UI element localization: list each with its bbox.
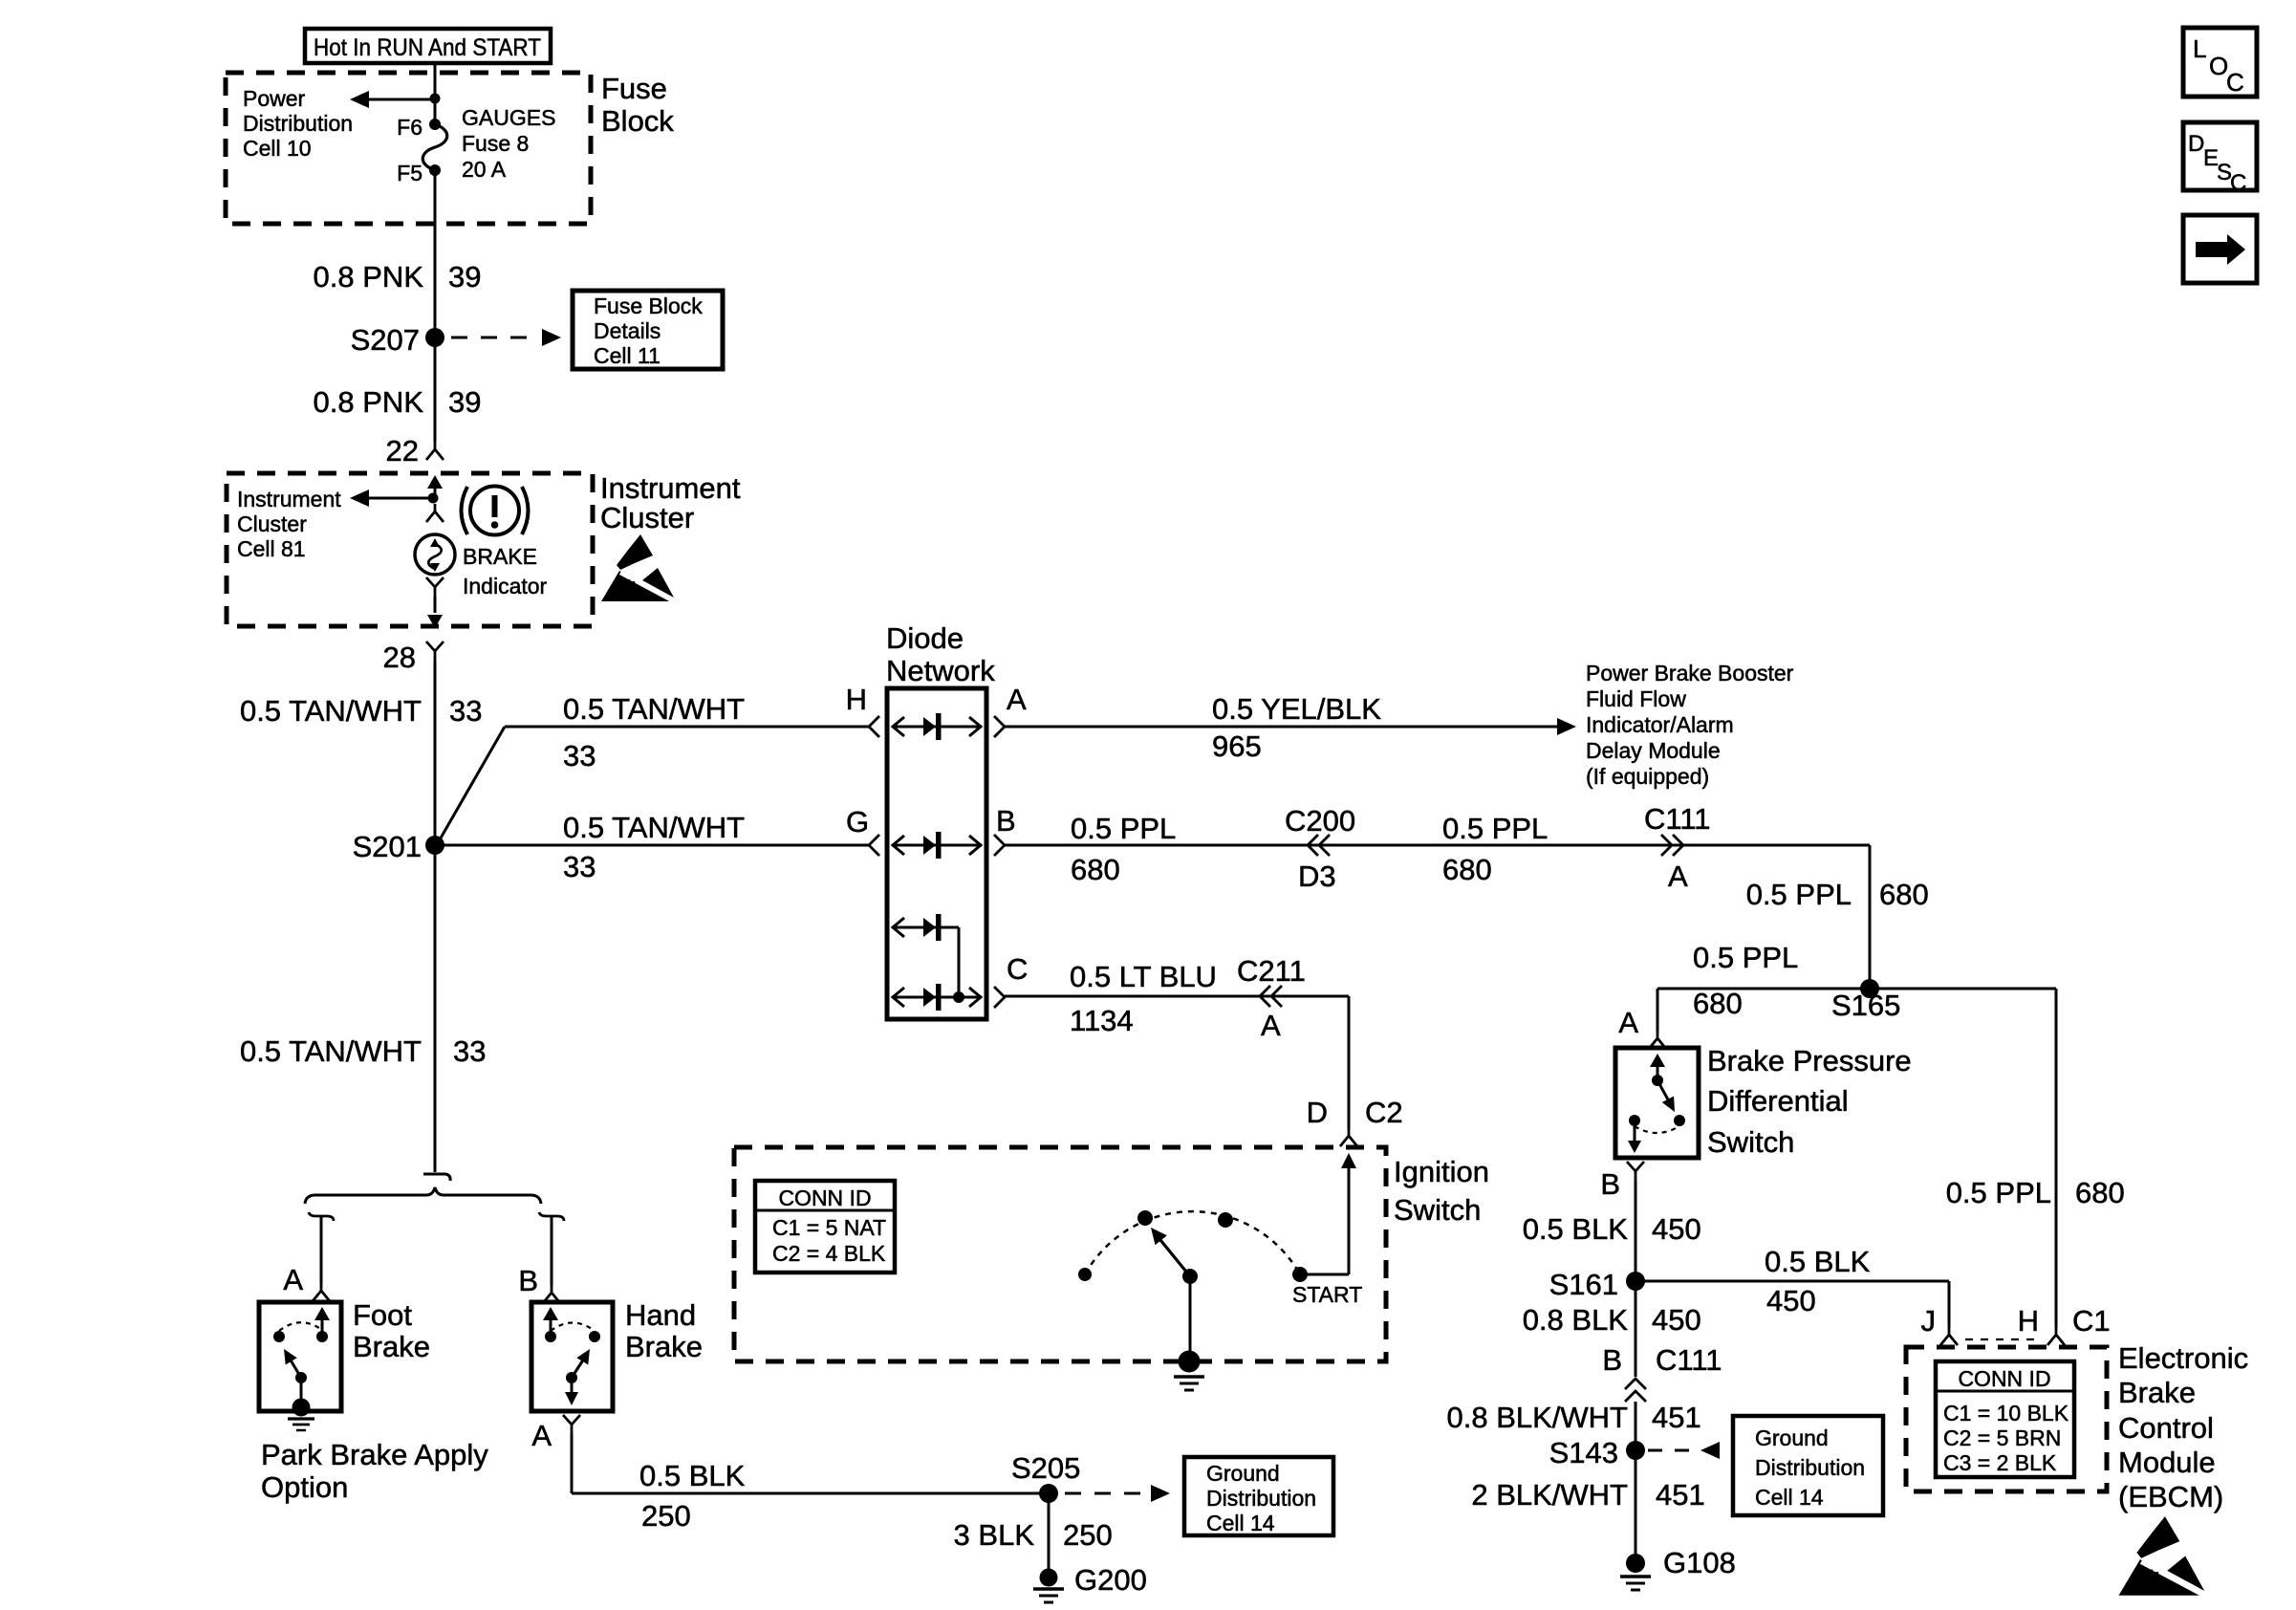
BRAKE indicator lamp (415, 534, 455, 575)
instrument cluster dashed outline (227, 473, 593, 626)
svg-text:C2 = 4 BLK: C2 = 4 BLK (772, 1241, 886, 1266)
svg-text:G: G (846, 805, 869, 838)
LOC legend box (2183, 28, 2257, 97)
svg-text:Brake: Brake (353, 1330, 430, 1363)
dashed reference arrow to Fuse Block Details (451, 329, 561, 346)
label Instrument Cluster Cell 81 (237, 487, 341, 561)
connector C111 pin A (1644, 802, 1711, 893)
connector below cluster, terminal 28 (383, 641, 444, 674)
pin G (846, 805, 879, 856)
svg-text:C1: C1 (2072, 1304, 2111, 1338)
svg-text:A: A (1618, 1006, 1638, 1039)
svg-text:CONN ID: CONN ID (778, 1186, 871, 1210)
wire hand brake to S205 (572, 1434, 1049, 1493)
svg-text:Indicator/Alarm: Indicator/Alarm (1586, 712, 1734, 737)
Hot In RUN And START title box (305, 29, 551, 63)
svg-text:965: 965 (1212, 729, 1262, 763)
svg-text:Park Brake Apply: Park Brake Apply (261, 1438, 488, 1471)
svg-text:Module: Module (2118, 1446, 2216, 1479)
svg-text:D: D (1307, 1096, 1328, 1129)
wire label 0.5 PPL 680 (1071, 812, 1176, 886)
svg-text:680: 680 (1071, 853, 1120, 886)
connector pin J (1921, 1304, 1959, 1345)
svg-text:Distribution: Distribution (243, 111, 353, 136)
svg-text:Ground: Ground (1755, 1425, 1829, 1450)
dashed connector face between J and H (1965, 1338, 2042, 1340)
svg-text:0.5 TAN/WHT: 0.5 TAN/WHT (563, 692, 745, 726)
pressure switch contacts (1628, 1054, 1685, 1153)
splice S143 (1549, 1436, 1645, 1469)
svg-text:GAUGES: GAUGES (462, 105, 555, 130)
svg-text:L: L (2193, 34, 2206, 63)
svg-text:450: 450 (1652, 1303, 1701, 1337)
svg-text:Delay Module: Delay Module (1586, 738, 1721, 763)
diode D1 row (892, 713, 982, 740)
wire label 0.8 BLK/WHT 451 (1447, 1401, 1701, 1434)
wire START up to pin D (1300, 1153, 1356, 1274)
up arrow into cluster (427, 475, 443, 498)
wire S161 to EBCM pin J (1635, 1281, 1949, 1327)
node: feed junction (430, 94, 441, 104)
wire label 0.8 BLK 450 (1523, 1303, 1701, 1337)
label Ignition Switch (1394, 1155, 1489, 1227)
svg-text:Cell 10: Cell 10 (243, 136, 312, 161)
wire label 0.5 LT BLU 1134 (1070, 960, 1217, 1037)
wire label 0.5 PPL 680 (4) (1693, 941, 1798, 1020)
svg-text:Hand: Hand (625, 1298, 696, 1332)
svg-text:A: A (283, 1263, 303, 1296)
svg-text:Cell 14: Cell 14 (1755, 1485, 1824, 1510)
ignition ground (1174, 1351, 1204, 1391)
svg-text:451: 451 (1652, 1401, 1701, 1434)
svg-text:A: A (1668, 859, 1688, 893)
svg-text:0.5 TAN/WHT: 0.5 TAN/WHT (563, 811, 745, 844)
svg-text:B: B (1600, 1167, 1620, 1201)
ESD symbol (EBCM) (2119, 1516, 2207, 1597)
diode D4 row (892, 984, 982, 1011)
svg-text:F6: F6 (397, 115, 422, 140)
svg-text:F5: F5 (397, 161, 422, 185)
hand brake switch box (531, 1302, 613, 1411)
svg-text:0.5 PPL: 0.5 PPL (1693, 941, 1798, 974)
svg-text:0.5 PPL: 0.5 PPL (1442, 812, 1548, 845)
wire S165 to EBCM pin H (1870, 989, 2056, 1327)
ESD symbol (instrument cluster) (601, 534, 676, 602)
arrow to Instrument Cluster Cell 81 (350, 490, 433, 507)
label Power Distribution Cell 10 (243, 86, 353, 161)
splice S201 (353, 830, 444, 863)
wire S161 down (1635, 1281, 1637, 1377)
CONN ID table (ignition) (755, 1181, 895, 1273)
svg-text:33: 33 (453, 1034, 486, 1068)
svg-text:Power Brake Booster: Power Brake Booster (1586, 661, 1794, 685)
svg-text:Brake Pressure: Brake Pressure (1707, 1044, 1912, 1077)
ignition rotary contact arc (1085, 1211, 1300, 1274)
svg-text:Instrument: Instrument (600, 471, 741, 505)
svg-text:680: 680 (1879, 878, 1929, 911)
svg-text:A: A (1007, 683, 1027, 716)
wire junction to F6 (434, 98, 437, 124)
svg-text:BRAKE: BRAKE (463, 544, 537, 569)
svg-text:Switch: Switch (1707, 1125, 1794, 1159)
wire to S161 (1635, 1181, 1637, 1281)
arrow legend box (2183, 215, 2257, 283)
svg-text:G200: G200 (1074, 1563, 1147, 1597)
svg-text:22: 22 (386, 434, 419, 468)
right branch wire (551, 1217, 553, 1285)
svg-text:H: H (2018, 1304, 2039, 1338)
svg-text:G108: G108 (1663, 1546, 1736, 1579)
svg-text:Cluster: Cluster (600, 501, 694, 534)
splice S207 (351, 323, 444, 357)
hand brake switch (543, 1307, 600, 1405)
svg-text:Option: Option (261, 1470, 348, 1504)
contact dots (1078, 1210, 1308, 1282)
svg-text:D3: D3 (1298, 859, 1336, 893)
svg-text:0.5 PPL: 0.5 PPL (1071, 812, 1176, 845)
wire label 0.5 PPL 680 (5) (1946, 1176, 2125, 1209)
svg-text:0.5 TAN/WHT: 0.5 TAN/WHT (240, 1034, 422, 1068)
wire down to S201 (434, 661, 437, 845)
svg-text:C: C (2226, 68, 2244, 97)
CONN ID table (EBCM) (1936, 1361, 2074, 1477)
wire S165 to pressure switch (1657, 988, 1870, 990)
connector pin D C2 into ignition switch (1307, 1096, 1403, 1146)
svg-text:0.5 LT BLU: 0.5 LT BLU (1070, 960, 1217, 993)
svg-text:1134: 1134 (1070, 1004, 1134, 1037)
fuse F8 GAUGES 20A (squiggle) (422, 124, 447, 170)
wire from hot feed into fuse block (434, 63, 437, 99)
connector pin A foot brake (283, 1263, 330, 1301)
svg-text:Fuse Block: Fuse Block (594, 294, 703, 318)
svg-text:J: J (1921, 1304, 1937, 1338)
wire label 0.5 TAN/WHT 33 (H branch) (563, 692, 745, 772)
svg-text:Indicator: Indicator (463, 574, 548, 598)
Ground Distribution Cell 14 reference box (2) (1733, 1416, 1883, 1515)
wire A to delay module (1005, 718, 1576, 735)
svg-text:680: 680 (2075, 1176, 2125, 1209)
svg-text:Block: Block (601, 104, 674, 138)
svg-text:CONN ID: CONN ID (1958, 1366, 2050, 1391)
wire label 0.5 BLK 250 (639, 1459, 746, 1533)
wire label 0.5 PPL 680 (2) (1442, 812, 1548, 886)
svg-text:A: A (531, 1419, 552, 1452)
DESC legend box (2183, 122, 2257, 196)
Fuse Block Details Cell 11 reference box (573, 291, 723, 369)
wire label 0.5 TAN/WHT 33 (G branch) (563, 811, 745, 883)
pin C (994, 952, 1028, 1008)
pin A (994, 683, 1027, 737)
pin B (994, 804, 1016, 856)
splice S165 (1831, 979, 1900, 1022)
wire down to S165 (1869, 845, 1872, 989)
wire label 0.5 TAN/WHT 33 (3) (240, 1034, 487, 1068)
svg-text:Network: Network (886, 654, 995, 687)
svg-text:680: 680 (1442, 853, 1492, 886)
connector into indicator (426, 504, 444, 522)
splice S205 (1011, 1451, 1080, 1503)
label Fuse Block (601, 72, 674, 138)
svg-text:C3 = 2 BLK: C3 = 2 BLK (1943, 1450, 2057, 1475)
connector pin H C1 (2018, 1304, 2111, 1345)
svg-text:Fluid Flow: Fluid Flow (1586, 686, 1686, 711)
wire label 0.5 YEL/BLK 965 (1212, 692, 1381, 763)
svg-text:Diode: Diode (886, 621, 964, 655)
svg-text:680: 680 (1693, 987, 1743, 1020)
svg-text:Ignition: Ignition (1394, 1155, 1489, 1188)
right branch curl (539, 1212, 564, 1221)
label Diode Network (886, 621, 995, 687)
split brace (305, 1187, 541, 1204)
connector C200 pin D3 (1285, 804, 1355, 893)
splice S161 (1549, 1268, 1645, 1301)
label BRAKE Indicator (463, 544, 548, 598)
EBCM dashed outline (1906, 1347, 2107, 1491)
wire label 0.8 PNK 39 (314, 260, 482, 294)
pin F5 (397, 161, 441, 185)
foot brake switch (273, 1307, 330, 1403)
svg-text:0.5 TAN/WHT: 0.5 TAN/WHT (240, 694, 422, 728)
wire label 0.5 TAN/WHT 33 (240, 694, 483, 728)
connector pin A below hand brake (531, 1415, 580, 1452)
svg-text:Instrument: Instrument (237, 487, 341, 511)
wire F5 down to S207 (434, 170, 437, 337)
svg-text:33: 33 (563, 739, 596, 772)
svg-text:(If equipped): (If equipped) (1586, 764, 1709, 789)
svg-text:Electronic: Electronic (2118, 1341, 2248, 1375)
wire split end (423, 1174, 450, 1181)
svg-text:Brake: Brake (2118, 1376, 2196, 1409)
connector C211 pin A (1237, 954, 1306, 1042)
svg-text:Fuse 8: Fuse 8 (462, 131, 529, 156)
wire corner down to pin A (1657, 989, 1659, 1031)
svg-text:450: 450 (1766, 1284, 1816, 1317)
svg-text:(EBCM): (EBCM) (2118, 1480, 2223, 1513)
foot brake ground (park brake apply) (288, 1399, 314, 1431)
label Hand Brake (625, 1298, 703, 1363)
diode D3 row (892, 914, 959, 997)
svg-text:START: START (1292, 1282, 1362, 1307)
svg-text:C1 = 10 BLK: C1 = 10 BLK (1943, 1401, 2069, 1425)
wire S207 down to instrument cluster (434, 337, 437, 442)
svg-text:C2: C2 (1365, 1096, 1403, 1129)
svg-text:39: 39 (448, 260, 481, 294)
svg-text:S143: S143 (1549, 1436, 1618, 1469)
wire S205 to G200 (1048, 1493, 1051, 1570)
svg-text:450: 450 (1652, 1212, 1701, 1246)
connector pin B below pressure switch (1600, 1162, 1644, 1201)
svg-text:20 A: 20 A (462, 157, 507, 182)
wire to diode pin H (505, 726, 869, 729)
svg-text:33: 33 (449, 694, 482, 728)
svg-text:451: 451 (1656, 1478, 1705, 1512)
svg-text:Foot: Foot (353, 1298, 412, 1332)
node: cluster feed junction (428, 493, 439, 504)
label Electronic Brake Control Module (EBCM) (2118, 1341, 2248, 1513)
svg-text:0.5 YEL/BLK: 0.5 YEL/BLK (1212, 692, 1381, 726)
svg-text:C200: C200 (1285, 804, 1355, 838)
down arrow leaving cluster (427, 597, 443, 628)
svg-text:B: B (996, 804, 1016, 838)
svg-text:3 BLK: 3 BLK (954, 1518, 1035, 1552)
svg-text:0.5 BLK: 0.5 BLK (1765, 1245, 1871, 1278)
svg-text:39: 39 (448, 385, 481, 419)
svg-text:250: 250 (641, 1499, 691, 1533)
ground G108 (1620, 1546, 1736, 1590)
brake warning symbol ((!)) (462, 487, 529, 535)
svg-text:Switch: Switch (1394, 1193, 1481, 1227)
label Brake Pressure Differential Switch (1707, 1044, 1912, 1159)
svg-text:28: 28 (383, 641, 416, 674)
svg-text:C111: C111 (1656, 1343, 1722, 1377)
ground G200 (1033, 1563, 1147, 1602)
left branch wire (320, 1217, 323, 1283)
svg-text:C: C (2230, 170, 2246, 196)
svg-text:2 BLK/WHT: 2 BLK/WHT (1471, 1478, 1628, 1512)
pin H (846, 683, 879, 737)
wire to S143 (1635, 1402, 1637, 1450)
connector pin B hand brake (518, 1264, 560, 1303)
svg-text:0.5 PPL: 0.5 PPL (1746, 878, 1852, 911)
svg-text:Details: Details (594, 318, 661, 343)
svg-text:0.8 PNK: 0.8 PNK (314, 260, 424, 294)
left branch curl (309, 1212, 334, 1221)
diode D2 row (892, 832, 982, 859)
wire label 0.5 PPL 680 (3) (1746, 878, 1929, 911)
wire label 2 BLK/WHT 451 (1471, 1478, 1704, 1512)
label Power Brake Booster module (1586, 661, 1794, 789)
branch wire up to diode row H (435, 727, 505, 848)
svg-text:S205: S205 (1011, 1451, 1080, 1485)
svg-text:250: 250 (1063, 1518, 1113, 1552)
label Instrument Cluster (600, 471, 741, 534)
wire label 3 BLK 250 (954, 1518, 1113, 1552)
foot brake switch box (259, 1302, 341, 1411)
svg-text:H: H (846, 683, 867, 716)
diode network box (887, 688, 986, 1019)
label Park Brake Apply Option (261, 1438, 488, 1504)
wire B to C111 (1005, 844, 1870, 847)
svg-text:C111: C111 (1644, 802, 1711, 836)
dashed reference arrow to Ground Distribution (1065, 1485, 1170, 1502)
svg-text:Brake: Brake (625, 1330, 703, 1363)
svg-text:0.8 BLK/WHT: 0.8 BLK/WHT (1447, 1401, 1629, 1434)
wire S143 to G108 (1635, 1450, 1637, 1556)
wire label 0.5 BLK 450 (1523, 1212, 1701, 1246)
svg-text:C211: C211 (1237, 954, 1306, 988)
label GAUGES Fuse 8 20 A (462, 105, 555, 182)
svg-text:0.8 PNK: 0.8 PNK (314, 385, 424, 419)
svg-text:C1 = 5 NAT: C1 = 5 NAT (772, 1215, 886, 1240)
connector C111 pin B (inline) (1602, 1343, 1722, 1402)
svg-text:33: 33 (563, 850, 596, 883)
svg-text:Cell 14: Cell 14 (1206, 1511, 1275, 1535)
svg-text:0.5 BLK: 0.5 BLK (1523, 1212, 1629, 1246)
svg-text:Ground: Ground (1206, 1461, 1280, 1486)
svg-text:Distribution: Distribution (1206, 1486, 1316, 1511)
svg-text:B: B (1602, 1343, 1622, 1377)
wire S201 down to park brake split (434, 845, 437, 1172)
svg-text:C: C (1007, 952, 1028, 986)
svg-text:Cluster: Cluster (237, 511, 307, 536)
svg-text:S161: S161 (1549, 1268, 1618, 1301)
brake pressure differential switch box (1615, 1048, 1699, 1158)
svg-text:Differential: Differential (1707, 1084, 1849, 1118)
Ground Distribution Cell 14 reference box (1184, 1457, 1333, 1535)
rotor to ground (1189, 1276, 1192, 1358)
pin F6 (397, 115, 441, 140)
wire C to C211 and ignition switch (1005, 996, 1349, 1128)
svg-text:Power: Power (243, 86, 306, 111)
arrow to Power Distribution (350, 91, 435, 108)
wire label 0.5 BLK 450 (2) (1765, 1245, 1871, 1317)
wire to diode pin G (435, 844, 869, 847)
svg-text:S165: S165 (1831, 989, 1900, 1022)
rotor arm (1151, 1228, 1198, 1284)
svg-text:A: A (1261, 1009, 1281, 1042)
svg-text:Hot In RUN And START: Hot In RUN And START (314, 34, 541, 61)
label Foot Brake (353, 1298, 430, 1363)
fuse block dashed outline (226, 73, 591, 224)
svg-text:B: B (518, 1264, 538, 1297)
svg-text:Cell 11: Cell 11 (594, 343, 661, 368)
svg-text:0.5 PPL: 0.5 PPL (1946, 1176, 2051, 1209)
wire label 0.8 PNK 39 (2) (314, 385, 482, 419)
svg-text:D: D (2188, 131, 2204, 157)
dashed reference arrow to Ground Distribution (S143) (1648, 1442, 1720, 1459)
svg-text:Distribution: Distribution (1755, 1455, 1865, 1480)
svg-text:0.8 BLK: 0.8 BLK (1523, 1303, 1629, 1337)
connector below indicator (426, 577, 444, 597)
ignition switch dashed outline (734, 1147, 1386, 1361)
svg-text:Fuse: Fuse (601, 72, 667, 105)
svg-text:Cell 81: Cell 81 (237, 536, 306, 561)
svg-text:C2 = 5 BRN: C2 = 5 BRN (1943, 1425, 2061, 1450)
terminal 22 connector (386, 434, 444, 468)
svg-text:0.5 BLK: 0.5 BLK (639, 1459, 746, 1492)
connector pin A of pressure switch (1618, 1006, 1666, 1049)
svg-text:S207: S207 (351, 323, 420, 357)
svg-text:Control: Control (2118, 1411, 2214, 1445)
svg-text:S201: S201 (353, 830, 422, 863)
